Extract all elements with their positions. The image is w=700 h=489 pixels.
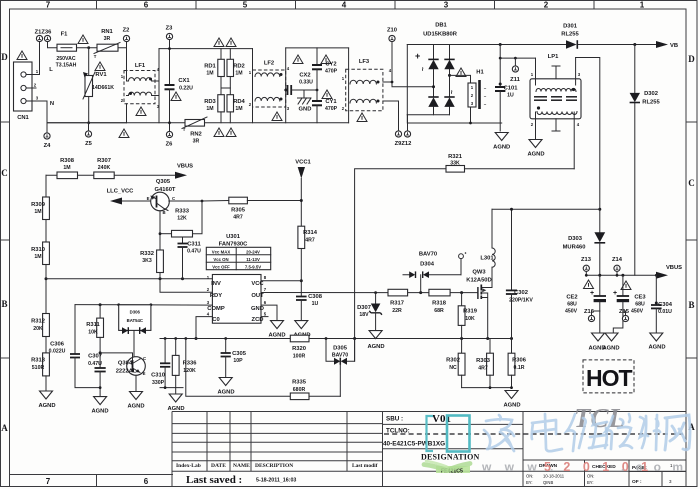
diode D306 BAT54C [119, 305, 151, 359]
resistor R333 and capacitor C311 [159, 200, 204, 279]
svg-text:0.1R: 0.1R [514, 365, 525, 371]
svg-text:D304: D304 [420, 262, 435, 268]
mosfet QW3 [466, 267, 492, 338]
svg-text:Last saved :: Last saved : [186, 474, 242, 486]
resistor R313 [31, 353, 55, 409]
svg-text:NC: NC [449, 365, 457, 371]
wire LP1 pin3 to D303 [576, 58, 600, 233]
svg-text:R313: R313 [31, 358, 46, 364]
terminal Z2 [123, 35, 129, 41]
svg-text:1M: 1M [63, 165, 70, 171]
svg-text:250VAC: 250VAC [56, 56, 75, 62]
resistor RD3 [204, 95, 224, 123]
svg-text:0.33U: 0.33U [299, 80, 313, 86]
svg-text:5: 5 [243, 1, 248, 10]
svg-text:RV1: RV1 [95, 72, 107, 78]
warning triangle under LF1 box [136, 107, 146, 116]
warning triangle under LF3 [357, 113, 367, 122]
svg-text:AGND: AGND [493, 145, 510, 151]
wire L: CN1 pin1 up to Z1 [39, 42, 41, 75]
resistor R314 [261, 226, 318, 296]
svg-text:10P: 10P [233, 358, 243, 364]
svg-text:R303: R303 [476, 358, 491, 364]
resistor R318 [429, 289, 450, 314]
svg-text:Z1Z36: Z1Z36 [35, 30, 53, 36]
svg-text:R307: R307 [97, 158, 111, 164]
svg-text:E: E [143, 371, 146, 376]
capacitor C302 [506, 208, 533, 339]
svg-text:CX1: CX1 [178, 78, 190, 84]
diode D305 BAV70 [325, 337, 355, 396]
pin5 ZCD stub [261, 316, 268, 318]
teal logo bracket [427, 416, 434, 451]
svg-text:ZCD: ZCD [252, 317, 264, 323]
svg-text:MUR460: MUR460 [563, 245, 586, 251]
capacitor CY2 [312, 48, 338, 101]
capacitor C305 [217, 339, 246, 396]
svg-text:68R: 68R [434, 308, 444, 314]
svg-text:BAT54C: BAT54C [127, 318, 143, 323]
svg-text:4R7: 4R7 [233, 215, 243, 221]
teal logo square [447, 416, 470, 452]
transformer LP1 [530, 54, 581, 169]
svg-text:DESCRIPTION: DESCRIPTION [255, 463, 293, 469]
capacitor CX1 [165, 40, 194, 132]
svg-text:22R: 22R [392, 308, 402, 314]
svg-text:7: 7 [46, 1, 51, 10]
svg-text:Z10: Z10 [387, 28, 397, 34]
svg-text:220P/1KV: 220P/1KV [509, 298, 533, 304]
svg-text:H1: H1 [476, 70, 484, 76]
wire LF3 to bridge AC1 [383, 42, 434, 87]
svg-text:1: 1 [640, 1, 645, 10]
thermistor RN1 [94, 29, 120, 59]
svg-text:QW3: QW3 [472, 270, 486, 276]
svg-text:TCLNO:: TCLNO: [386, 428, 410, 435]
transistor Q304 [100, 353, 146, 410]
svg-text:510R: 510R [32, 365, 45, 371]
zener D307 [357, 291, 384, 350]
warning triangles under Z13 Z14 [584, 280, 594, 289]
svg-text:BY:: BY: [587, 480, 594, 485]
svg-text:RD3: RD3 [204, 99, 216, 105]
svg-text:Index-Lab: Index-Lab [176, 463, 201, 469]
drain rail from LP1 area [492, 208, 601, 211]
HOT label box [583, 360, 634, 393]
svg-text:COMP: COMP [207, 306, 225, 312]
svg-text:1U: 1U [507, 93, 514, 99]
svg-text:4R7: 4R7 [478, 366, 488, 372]
capacitor C304 [648, 274, 672, 351]
terminal Z3 [166, 33, 172, 39]
SBU column [383, 412, 684, 487]
svg-text:0.22U: 0.22U [179, 86, 193, 92]
svg-text:+: + [590, 290, 594, 297]
resistor R307 [94, 158, 114, 179]
warning triangle near CY1 [322, 90, 332, 99]
svg-text:R320: R320 [292, 346, 306, 352]
svg-text:Z11: Z11 [510, 77, 520, 83]
pin3 COMP wire [75, 303, 212, 306]
resistor R320 [290, 335, 309, 359]
VBUS output rail [588, 265, 683, 279]
svg-text:7: 7 [46, 477, 51, 486]
svg-text:T: T [183, 127, 186, 132]
svg-text:AGND: AGND [367, 344, 384, 350]
svg-text:18V: 18V [359, 312, 369, 318]
svg-text:DATE: DATE [211, 463, 226, 469]
svg-text:R309: R309 [31, 202, 46, 208]
terminal Z14 [612, 257, 623, 277]
svg-text:F1: F1 [61, 32, 69, 38]
inductor L301 [480, 209, 495, 267]
svg-text:UD15KB80R: UD15KB80R [423, 32, 458, 38]
svg-text:RN2: RN2 [190, 132, 202, 138]
svg-text:BAV70: BAV70 [332, 353, 348, 359]
svg-text:L301: L301 [480, 256, 494, 262]
svg-text:Z3: Z3 [166, 26, 174, 32]
svg-text:1M: 1M [235, 71, 242, 77]
sense ground rail [462, 386, 521, 408]
svg-text:R305: R305 [231, 208, 246, 214]
capacitor CE2 [565, 274, 606, 352]
svg-text:450V: 450V [565, 309, 578, 315]
svg-text:R335: R335 [292, 380, 307, 386]
diode D304 pair [403, 252, 466, 295]
svg-text:33K: 33K [450, 161, 460, 167]
jumper H1 [450, 70, 487, 125]
svg-text:7.5-9.5V: 7.5-9.5V [245, 264, 261, 269]
svg-text:BAV70: BAV70 [419, 252, 437, 258]
svg-text:D306: D306 [130, 310, 141, 315]
svg-text:GND: GND [299, 107, 312, 113]
svg-text:240K: 240K [98, 165, 111, 171]
svg-text:40-E421C5-PWB1XG: 40-E421C5-PWB1XG [383, 441, 445, 448]
terminal Z11 [510, 57, 520, 83]
svg-text:C304: C304 [658, 302, 673, 308]
svg-text:RD2: RD2 [233, 64, 245, 70]
blue cursive watermark char 1 (jia) [484, 415, 514, 451]
svg-text:+: + [613, 290, 617, 297]
svg-text:D303: D303 [568, 236, 583, 242]
resistor R308 [57, 158, 78, 179]
svg-text:R332: R332 [140, 251, 154, 257]
ground GND symbol [298, 90, 312, 113]
capacitor C101 [495, 57, 518, 131]
svg-text:100R: 100R [293, 354, 306, 360]
capacitor CY1 [312, 99, 338, 123]
fuse F1 [56, 32, 77, 69]
svg-text:T: T [94, 54, 97, 59]
svg-text:D307: D307 [357, 305, 371, 311]
svg-text:1U: 1U [312, 301, 319, 307]
svg-text:10K: 10K [88, 330, 98, 336]
svg-text:GND: GND [251, 306, 264, 312]
svg-text:RN1: RN1 [101, 29, 113, 35]
resistor R305 [202, 197, 301, 220]
svg-text:R312: R312 [31, 319, 45, 325]
svg-text:C: C [172, 196, 175, 201]
svg-text:RD1: RD1 [204, 64, 216, 70]
svg-text:14D661K: 14D661K [92, 85, 114, 91]
resistor RD4 [221, 88, 246, 123]
svg-text:AGND: AGND [91, 409, 108, 415]
resistor R302 [446, 339, 465, 388]
svg-text:4R7: 4R7 [305, 238, 315, 244]
svg-text:CY1: CY1 [325, 99, 337, 105]
svg-text:D305: D305 [333, 346, 348, 352]
diode D302 [630, 43, 661, 275]
wire F1 to RN1 [77, 47, 98, 49]
svg-text:R319: R319 [463, 309, 478, 315]
resistor R317 [388, 289, 408, 314]
svg-text:12K: 12K [177, 216, 187, 222]
svg-text:N: N [50, 101, 54, 107]
svg-text:CE2: CE2 [566, 295, 577, 301]
warning triangles below RD3 RD4 [214, 128, 224, 137]
capacitor C306 [49, 305, 100, 388]
svg-text:AGND: AGND [268, 332, 285, 338]
svg-text:CN1: CN1 [17, 115, 29, 121]
svg-text:R321: R321 [448, 154, 463, 160]
svg-text:0.022U: 0.022U [49, 349, 66, 355]
svg-text:Z16: Z16 [584, 309, 595, 315]
net VB arrow [656, 41, 678, 49]
svg-text:C305: C305 [232, 351, 247, 357]
svg-text:10-18-2011: 10-18-2011 [543, 474, 565, 479]
svg-text:R306: R306 [512, 358, 527, 364]
wire N bottom rail [47, 101, 127, 123]
svg-text:AGND: AGND [527, 152, 544, 158]
svg-text:R317: R317 [390, 301, 404, 307]
svg-text:VBUS: VBUS [666, 265, 682, 271]
svg-text:450V: 450V [631, 309, 644, 315]
svg-text:C302: C302 [514, 290, 528, 296]
svg-text:D301: D301 [563, 24, 578, 30]
wire Z12 up to negative rail [407, 115, 409, 131]
VB rail [450, 44, 657, 46]
svg-text:C306: C306 [50, 342, 65, 348]
choke LF2 [249, 61, 290, 112]
svg-text:~: ~ [447, 90, 454, 94]
svg-text:R336: R336 [183, 361, 198, 367]
svg-text:R318: R318 [432, 301, 447, 307]
svg-text:AGND: AGND [127, 404, 144, 410]
svg-text:6: 6 [144, 1, 149, 10]
svg-text:C311: C311 [187, 242, 201, 248]
svg-text:Z9Z12: Z9Z12 [395, 141, 412, 147]
svg-text:DB1: DB1 [435, 23, 447, 29]
svg-text:RL255: RL255 [642, 100, 660, 106]
svg-text:C0: C0 [212, 317, 219, 323]
svg-text:NAME: NAME [233, 463, 250, 469]
svg-text:0.47U: 0.47U [88, 361, 102, 367]
terminal Z15 [619, 309, 630, 322]
svg-text:4: 4 [342, 1, 347, 10]
warning triangle near CN1 [17, 51, 27, 60]
svg-text:120K: 120K [183, 368, 196, 374]
svg-text:D302: D302 [644, 91, 658, 97]
terminal Z4 [44, 133, 50, 139]
resistor R310 [31, 220, 49, 314]
svg-text:Z6: Z6 [166, 142, 174, 148]
svg-text:LF1: LF1 [135, 63, 146, 69]
wire LF3 bottom to Z9 [383, 101, 399, 131]
blue char 3 (wei) [567, 414, 607, 451]
svg-text:1M: 1M [34, 254, 41, 260]
svg-text:2222AL: 2222AL [116, 369, 137, 375]
svg-text:C: C [143, 356, 146, 361]
warning triangle near F1 [78, 35, 88, 44]
svg-text:Last modif: Last modif [352, 463, 378, 469]
svg-text:OF :: OF : [632, 479, 642, 485]
svg-text:. c o m: . c o m [621, 460, 687, 474]
svg-text:R333: R333 [175, 209, 190, 215]
svg-text:0.47U: 0.47U [187, 249, 201, 255]
svg-text:T3.15AH: T3.15AH [56, 63, 77, 69]
warning triangle under LF1 left [119, 129, 129, 138]
svg-text:C: C [688, 178, 695, 188]
terminal Z9 [395, 131, 401, 137]
resistor RD1 [204, 49, 224, 95]
svg-text:C308: C308 [308, 294, 323, 300]
svg-text:LF2: LF2 [264, 61, 274, 67]
terminal Z6 [166, 131, 172, 137]
resistor R332 [140, 250, 212, 292]
svg-text:L: L [49, 67, 53, 73]
capacitor C310 [151, 339, 170, 388]
resistor R303 [476, 339, 493, 388]
svg-text:3R: 3R [193, 139, 200, 145]
drawn/checked/page cells [523, 460, 686, 487]
svg-text:R311: R311 [86, 322, 100, 328]
CS row wire [160, 337, 513, 340]
svg-text:QINB: QINB [543, 480, 553, 485]
svg-text:LP1: LP1 [548, 54, 559, 60]
svg-text:B: B [688, 300, 694, 310]
svg-text:1M: 1M [34, 209, 41, 215]
svg-text:1M: 1M [206, 106, 213, 112]
svg-text:68U: 68U [635, 302, 645, 308]
EMI box 2 rails [286, 48, 349, 123]
svg-text:Vcc OFF: Vcc OFF [212, 264, 230, 269]
warning triangles near CY2 [293, 55, 303, 64]
blue char 6 (wang) [665, 415, 690, 450]
svg-text:LLC_VCC: LLC_VCC [107, 189, 135, 195]
svg-text:B: B [1, 299, 7, 309]
svg-text:SBU :: SBU : [386, 416, 403, 423]
blue char 4 (xiu) [606, 414, 632, 449]
svg-text:68U: 68U [567, 302, 577, 308]
varistor RV1 [83, 46, 114, 124]
pin7 OUT gate wire [261, 292, 478, 294]
svg-text:20K: 20K [33, 326, 43, 332]
svg-text:~: ~ [418, 67, 425, 71]
terminal Z1 [36, 35, 42, 41]
resistor R306 [508, 339, 527, 388]
thermistor RN2 [182, 117, 207, 145]
svg-text:CE3: CE3 [634, 295, 646, 301]
svg-text:K12A50D: K12A50D [466, 278, 491, 284]
warning triangle near RV1 [95, 62, 105, 71]
svg-text:3K3: 3K3 [142, 258, 152, 264]
resistor R319 [458, 291, 478, 338]
terminal Z36 [44, 35, 50, 41]
resistor R335 [186, 339, 340, 400]
svg-text:A: A [1, 423, 8, 433]
svg-text:INV: INV [211, 281, 221, 287]
blue char 2 (dian) [532, 414, 562, 451]
terminal Z10 [389, 35, 395, 41]
resistor R312 [31, 314, 49, 353]
svg-text:CX2: CX2 [299, 73, 310, 79]
svg-text:+: + [415, 51, 420, 61]
resistor RD2 [227, 49, 245, 95]
svg-text:E: E [147, 196, 150, 201]
svg-text:RDY: RDY [210, 293, 222, 299]
U301 spec table [206, 234, 270, 270]
svg-text:Z15: Z15 [619, 309, 630, 315]
svg-text:Z14: Z14 [612, 257, 623, 263]
svg-text:20-24V: 20-24V [246, 249, 260, 254]
warning triangle under LF2 [272, 112, 282, 121]
svg-text:D: D [1, 52, 8, 62]
net VCC1 arrow [295, 160, 311, 227]
green book swoosh [424, 464, 470, 471]
svg-text:R314: R314 [303, 230, 318, 236]
svg-text:HOT: HOT [586, 365, 633, 391]
svg-text:1M: 1M [206, 71, 213, 77]
diode D303 [563, 232, 606, 275]
svg-text:Z4: Z4 [44, 143, 52, 149]
terminal Z16 [584, 309, 600, 322]
svg-text:AGND: AGND [602, 346, 619, 352]
resistor R321 on sense wire [355, 154, 575, 361]
capacitor C308 [293, 294, 322, 339]
svg-text:C101: C101 [504, 86, 519, 92]
svg-text:680R: 680R [293, 387, 306, 393]
svg-text:AGND: AGND [503, 403, 520, 409]
svg-text:3: 3 [444, 1, 449, 10]
wire INV row [45, 277, 213, 280]
blue char 5 (liao) [640, 415, 660, 450]
svg-text:470P: 470P [325, 69, 338, 75]
wire Z36 down to fuse line [48, 42, 58, 48]
svg-text:BY:: BY: [526, 480, 533, 485]
transistor Q305 [147, 179, 202, 250]
svg-text:DESIGNATION: DESIGNATION [421, 453, 480, 462]
capacitor CE3 [602, 274, 646, 352]
pin6 GND wire to AGND [261, 305, 286, 338]
EMI box 1 rails [47, 49, 349, 123]
svg-text:VBUS: VBUS [177, 164, 193, 170]
revision table [172, 412, 686, 487]
resistor R336 [172, 339, 197, 388]
svg-text:Q305: Q305 [156, 179, 171, 185]
svg-text:330P: 330P [152, 380, 165, 386]
svg-text:5-18-2011_16:03: 5-18-2011_16:03 [256, 478, 296, 484]
svg-text:1M: 1M [235, 106, 242, 112]
svg-text:2: 2 [544, 1, 549, 10]
svg-text:Q304: Q304 [118, 361, 133, 367]
svg-text:AGND: AGND [38, 403, 55, 409]
svg-text:ON:: ON: [526, 474, 533, 479]
resistor R311 [86, 305, 103, 368]
warning triangle under CX1 [171, 92, 181, 101]
svg-text:AGND: AGND [167, 406, 184, 412]
svg-text:Vcc ON: Vcc ON [213, 257, 228, 262]
svg-text:VB: VB [670, 43, 678, 49]
